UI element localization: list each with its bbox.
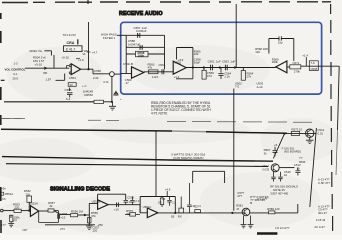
svg-text:2?1: 2?1 bbox=[60, 227, 65, 231]
wire bus 2 bbox=[2, 157, 273, 162]
svg-text:1x10: 1x10 bbox=[152, 75, 159, 79]
svg-text:+5: +5 bbox=[274, 143, 278, 147]
op-amp U501 bbox=[71, 64, 80, 75]
wire input bbox=[121, 73, 132, 75]
svg-text:270k: 270k bbox=[294, 70, 301, 74]
svg-text:1-3: 1-3 bbox=[14, 61, 18, 65]
junction bbox=[231, 212, 233, 214]
svg-text:47?: 47? bbox=[237, 194, 242, 198]
svg-text:30pF: 30pF bbox=[194, 60, 201, 64]
wire down right side bbox=[338, 66, 340, 130]
junction dots bbox=[192, 66, 194, 68]
svg-text:1M: 1M bbox=[158, 202, 161, 205]
svg-text:(3.05 500kHz) 500kHz: (3.05 500kHz) 500kHz bbox=[173, 156, 204, 160]
svg-text:+1.4: +1.4 bbox=[174, 75, 180, 79]
section divider dashed (middle) bbox=[1, 118, 313, 122]
svg-text:47k: 47k bbox=[91, 214, 96, 218]
wire bbox=[44, 51, 51, 56]
wire down from wiper bbox=[111, 77, 113, 102]
ground bbox=[306, 137, 314, 143]
wire into box bbox=[117, 34, 126, 36]
svg-text:33: 33 bbox=[70, 83, 74, 87]
svg-text:27k: 27k bbox=[246, 75, 251, 79]
wire vol control with arrow bbox=[25, 67, 47, 69]
node vertical left bbox=[125, 35, 127, 73]
resistor R505 bbox=[68, 83, 76, 87]
svg-text:+4.9: +4.9 bbox=[165, 188, 171, 192]
wire output bbox=[144, 71, 173, 73]
svg-text:600Z: 600Z bbox=[299, 160, 306, 164]
svg-text:+1.4: +1.4 bbox=[302, 54, 308, 58]
svg-text:3.857 45? 490: 3.857 45? 490 bbox=[270, 191, 288, 195]
svg-text:.47: .47 bbox=[125, 81, 129, 85]
input rise to U551B bbox=[89, 203, 97, 226]
svg-text:1C5 44: 1C5 44 bbox=[316, 218, 326, 222]
svg-text:C563 .1uF: C563 .1uF bbox=[222, 59, 236, 63]
svg-text:FILTER 1: FILTER 1 bbox=[103, 36, 116, 40]
svg-text:R573 10: R573 10 bbox=[292, 127, 303, 131]
op-amp U502B bbox=[132, 67, 144, 78]
svg-text:1.1k: 1.1k bbox=[224, 75, 230, 79]
svg-text:TO1 41.5V: TO1 41.5V bbox=[63, 33, 77, 37]
resistor R576 bbox=[160, 198, 163, 205]
svg-text:U502: U502 bbox=[175, 61, 182, 65]
svg-text:+5v: +5v bbox=[1, 186, 6, 190]
svg-text:220kU Vw: 220kU Vw bbox=[29, 49, 43, 53]
feedback loop top bbox=[177, 48, 193, 68]
capacitor C564 shunt bbox=[218, 68, 223, 80]
svg-text:U502-B: U502-B bbox=[123, 62, 133, 66]
svg-text:100k: 100k bbox=[138, 54, 145, 58]
svg-text:20-5: 20-5 bbox=[13, 76, 19, 80]
input terminal bbox=[1, 209, 4, 212]
wire right of Q553 bbox=[250, 212, 269, 214]
svg-text:C554: C554 bbox=[69, 76, 76, 80]
svg-text:10k: 10k bbox=[194, 52, 199, 56]
wire vertical node bbox=[53, 55, 55, 69]
feedback loop bottom bbox=[176, 68, 193, 79]
svg-text:C575: C575 bbox=[127, 196, 134, 200]
svg-text:U551A: U551A bbox=[29, 202, 38, 206]
wire down through box bottom bbox=[233, 89, 235, 211]
wire bbox=[279, 167, 294, 169]
svg-text:C555: C555 bbox=[65, 88, 72, 92]
svg-text:C571: C571 bbox=[293, 61, 300, 65]
connector box J7 bbox=[309, 61, 318, 71]
capacitor C569 bbox=[279, 36, 281, 40]
main wire bbox=[186, 67, 276, 69]
page border right (dashed) bbox=[331, 4, 333, 231]
svg-text:SIGNALLING DECODE: SIGNALLING DECODE bbox=[50, 186, 110, 192]
op-amp U551B bbox=[98, 200, 109, 210]
capacitor C510 bbox=[273, 147, 278, 157]
wire bus 1 bbox=[1, 129, 287, 133]
svg-text:E 41.7: E 41.7 bbox=[66, 47, 75, 51]
svg-text:7-5: 7-5 bbox=[235, 85, 239, 89]
wire to box bbox=[114, 73, 120, 75]
svg-text:47k: 47k bbox=[148, 65, 153, 69]
svg-text:2.2k: 2.2k bbox=[93, 76, 99, 80]
svg-text:5-4: 5-4 bbox=[66, 97, 71, 101]
svg-text:+ C: + C bbox=[82, 84, 87, 88]
border corner tick top bbox=[87, 0, 89, 4]
blue function box bbox=[121, 22, 322, 94]
svg-text:(NO BOARD): (NO BOARD) bbox=[284, 150, 301, 154]
svg-text:R?: R? bbox=[14, 219, 18, 223]
svg-text:+10: +10 bbox=[61, 215, 66, 219]
svg-text:C-5P 4T?: C-5P 4T? bbox=[318, 181, 330, 185]
junction bbox=[111, 101, 113, 103]
svg-text:VL: VL bbox=[83, 52, 87, 56]
svg-text:B: B bbox=[250, 201, 252, 205]
wire step bbox=[54, 211, 71, 215]
svg-text:VOL CONTROL: VOL CONTROL bbox=[5, 68, 26, 72]
svg-text:+5-10: +5-10 bbox=[62, 56, 70, 60]
svg-text:R554 1M: R554 1M bbox=[71, 210, 83, 214]
svg-text:RX: RX bbox=[178, 214, 182, 218]
wire output bbox=[108, 205, 147, 213]
transistor Q553 bbox=[242, 208, 250, 216]
capacitor C556 bbox=[58, 214, 60, 219]
resistor R564 shunt bbox=[242, 68, 244, 71]
grounds below Q553 bbox=[241, 216, 247, 228]
capacitor pair below Q552 bbox=[271, 172, 276, 182]
resistor R556 to ground bbox=[10, 215, 12, 218]
wire right column bbox=[310, 128, 317, 207]
ground bbox=[109, 102, 116, 110]
svg-text:0.033: 0.033 bbox=[262, 168, 269, 172]
svg-text:C508: C508 bbox=[311, 67, 318, 71]
long wire to ground node bbox=[4, 101, 94, 103]
svg-text:7-6: 7-6 bbox=[311, 61, 316, 65]
feedback loop bbox=[269, 39, 294, 62]
transistor Q552 bbox=[271, 164, 279, 172]
feedback rail bbox=[140, 197, 175, 213]
wire bbox=[285, 132, 317, 134]
junction dot bbox=[87, 68, 89, 70]
svg-text:C561: C561 bbox=[159, 63, 166, 67]
transistor Q551 bbox=[306, 129, 314, 137]
wire lower input branch bbox=[56, 74, 65, 81]
svg-text:473: 473 bbox=[207, 74, 212, 78]
svg-text:+10: +10 bbox=[114, 207, 119, 211]
upper loop rail bbox=[193, 171, 225, 183]
svg-text:47: 47 bbox=[236, 207, 240, 211]
svg-text:120: 120 bbox=[255, 50, 260, 54]
page border top (dashed) bbox=[2, 1, 331, 4]
wire input bbox=[47, 66, 69, 69]
volume wiper circle bbox=[110, 72, 115, 77]
svg-text:220: 220 bbox=[93, 229, 98, 233]
node vertical right bbox=[164, 35, 166, 69]
bottom bars bbox=[257, 232, 277, 234]
page border left marks bbox=[0, 13, 2, 233]
capacitor C576 bbox=[167, 197, 171, 206]
svg-text:J-8 LO A??: J-8 LO A?? bbox=[275, 226, 290, 230]
svg-text:CRA: CRA bbox=[67, 41, 75, 45]
svg-text:RECEIVE AUDIO: RECEIVE AUDIO bbox=[119, 11, 163, 17]
wire from top border bbox=[235, 4, 237, 68]
svg-text:C?: A??: C?: A?? bbox=[257, 197, 268, 201]
svg-text:4.7k: 4.7k bbox=[103, 80, 109, 84]
svg-text:0.0047uF: 0.0047uF bbox=[128, 42, 140, 46]
svg-text:=30?: =30? bbox=[22, 229, 28, 232]
op-amp U551A bbox=[30, 206, 38, 217]
input terminal circles bbox=[69, 65, 71, 67]
resistor R558 bbox=[126, 53, 164, 55]
resistor R551A bbox=[1, 192, 4, 195]
wire output bbox=[39, 210, 48, 212]
svg-text:17?: 17? bbox=[1, 223, 6, 227]
wire output bbox=[158, 212, 246, 214]
op-amp U551C bbox=[147, 208, 158, 218]
svg-text:1B: 1B bbox=[171, 214, 175, 218]
svg-text:390k: 390k bbox=[272, 60, 279, 64]
wire output bbox=[287, 65, 339, 68]
resistor R562 shunt bbox=[203, 68, 205, 71]
capacitor C578 bbox=[187, 183, 192, 213]
svg-text:R551A: R551A bbox=[5, 192, 14, 196]
svg-text:C556: C556 bbox=[94, 69, 101, 73]
diagonal wire bbox=[273, 134, 284, 159]
capacitor C559 fb bbox=[124, 200, 129, 204]
main wire bbox=[3, 210, 14, 212]
svg-text:A-10: A-10 bbox=[257, 85, 263, 89]
feedback loop over U551B bbox=[98, 194, 126, 200]
op-amp U502 bbox=[173, 61, 186, 74]
svg-text:301 4?: 301 4? bbox=[318, 211, 327, 215]
feedback under U551A bbox=[39, 211, 59, 222]
svg-text:+4.7: +4.7 bbox=[92, 50, 98, 54]
svg-text:C5: C5 bbox=[2, 197, 6, 201]
wire drop to decoder bbox=[155, 130, 157, 196]
op-amp U503A (mirrored) bbox=[276, 61, 287, 73]
wire bus 3 bbox=[6, 164, 268, 167]
svg-text:+5-10: +5-10 bbox=[35, 63, 43, 67]
ground bbox=[86, 226, 93, 229]
svg-text:0.005uF: 0.005uF bbox=[136, 29, 147, 33]
svg-text:+.: +. bbox=[120, 98, 123, 101]
svg-text:0.01: 0.01 bbox=[318, 131, 324, 135]
resistor R577 bbox=[180, 197, 182, 209]
svg-text:R583 120: R583 120 bbox=[267, 207, 280, 211]
svg-text:15p: 15p bbox=[278, 41, 283, 45]
svg-text:2.2: 2.2 bbox=[135, 199, 139, 203]
svg-text:10: 10 bbox=[284, 173, 288, 177]
svg-text:C562 .1uF: C562 .1uF bbox=[208, 59, 222, 63]
resistor R506 bbox=[94, 100, 104, 103]
boxed label E41.7 bbox=[64, 46, 83, 52]
node +4.7 supply wire bbox=[88, 22, 90, 69]
svg-text:CR552: CR552 bbox=[84, 93, 93, 97]
wire output bbox=[81, 69, 110, 74]
svg-text:4 P1 NOTE: 4 P1 NOTE bbox=[151, 112, 168, 116]
svg-text:1,5?: 1,5? bbox=[46, 78, 52, 82]
svg-text:2C 3-4?: 2C 3-4? bbox=[314, 225, 325, 229]
inline capacitor C559b bbox=[117, 203, 119, 208]
svg-text:C5??: C5?? bbox=[194, 205, 201, 209]
svg-text:FC: FC bbox=[44, 71, 48, 75]
svg-text:-250: -250 bbox=[97, 223, 103, 227]
